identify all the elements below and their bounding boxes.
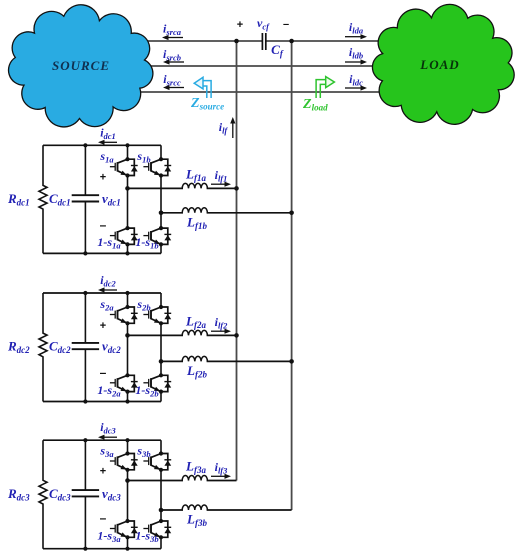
transistor 1-s_3a [110,519,138,540]
wire module 3 leg-a output [128,480,237,482]
resistor R_dc1 [39,145,47,253]
impedance arrow Z_load [316,77,334,98]
arrow i_ldc [345,87,361,89]
node B junction on phase a [289,39,294,44]
svg-text:–: – [100,365,107,379]
wire bottom rail module 1 [43,252,161,254]
svg-text:LOAD: LOAD [419,57,459,72]
wire phase a (SOURCE to C_f left node) [105,40,262,42]
arrow i_lda [345,36,361,38]
wire module 3 leg-b output [161,509,292,511]
arrow i_dc3 [105,436,118,438]
transistor s_2b [143,305,171,326]
wire bus A vertical (node A) [236,41,238,481]
wire top rail module 1 [43,144,161,146]
wire phase a (C_f right node to LOAD) [266,40,420,42]
wire left leg module 3 [125,438,129,551]
capacitor C_dc2 [72,291,99,404]
transistor 1-s_2a [110,373,138,394]
transistor s_1a [110,157,138,178]
svg-text:+: + [237,19,243,31]
capacitor Cf [262,33,265,50]
capacitor C_dc3 [72,438,99,551]
arrow i_dc2 [105,289,118,291]
resistor R_dc2 [39,293,47,402]
arrow i_lf3 [211,475,225,477]
arrow i_dc1 [105,141,118,143]
transistor 1-s_1b [143,226,171,247]
transistor s_3a [110,451,138,472]
SOURCE cloud [9,5,153,127]
transistor s_2a [110,305,138,326]
wire module 1 leg-b output [161,212,292,214]
wire module 1 leg-a output [128,187,237,189]
transistor s_3b [143,451,171,472]
wire bus B vertical (node B) [291,41,293,510]
wire module 2 leg-b output [161,360,292,362]
transistor s_1b [143,157,171,178]
inductor L_f1b [183,211,207,214]
node A junction on phase a [234,39,239,44]
wire top rail module 3 [43,439,161,441]
transistor 1-s_1a [110,226,138,247]
transistor 1-s_2b [143,373,171,394]
svg-text:SOURCE: SOURCE [52,58,110,73]
arrow i_srcb [170,61,185,63]
inductor L_f3b [183,509,207,512]
wire right leg module 3 [160,440,162,549]
svg-text:–: – [100,218,107,232]
wire left leg module 2 [125,291,129,404]
svg-text:+: + [100,466,106,478]
svg-text:+: + [100,172,106,184]
arrow i_lf2 [211,330,225,332]
impedance arrow Z_source [194,77,211,98]
wire phase c (SOURCE to LOAD) [105,91,420,93]
wire bottom rail module 2 [43,401,161,403]
inductor L_f2b [183,360,207,363]
svg-text:–: – [283,19,289,31]
arrow i_ldb [345,61,361,63]
transistor 1-s_3b [143,519,171,540]
svg-text:–: – [100,511,107,525]
wire bottom rail module 3 [43,548,161,550]
arrow i_srcc [170,87,185,89]
LOAD cloud [372,4,514,124]
inductor L_f2a [183,334,207,337]
arrow i_lf [232,124,234,139]
inductor L_f1a [183,187,207,190]
wire module 2 leg-a output [128,334,237,336]
resistor R_dc3 [39,440,47,549]
arrow i_srca [169,37,184,39]
wire left leg module 1 [125,143,129,255]
wire phase b (SOURCE to LOAD) [105,65,420,67]
capacitor C_dc1 [72,143,99,255]
wire right leg module 1 [160,145,162,253]
wire right leg module 2 [160,293,162,402]
wire top rail module 2 [43,292,161,294]
arrow i_lf1 [211,183,225,185]
svg-text:+: + [100,320,106,332]
inductor L_f3a [183,479,207,482]
